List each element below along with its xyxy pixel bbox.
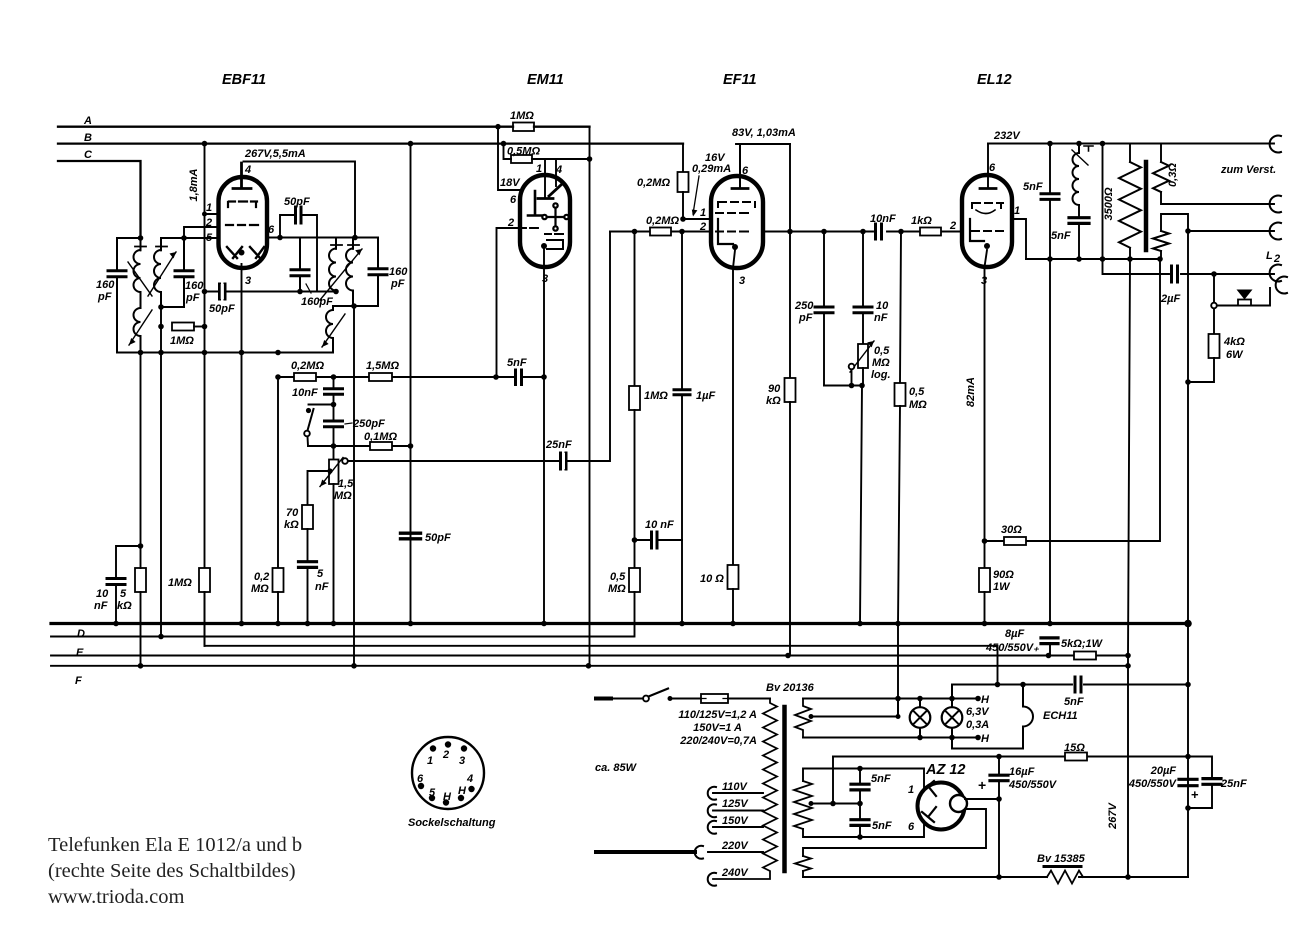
resistor 90Ω 1W — [979, 568, 1014, 626]
wire EM11 pin3 cathode to bus D — [541, 246, 548, 626]
svg-text:0,2MΩ: 0,2MΩ — [637, 177, 670, 189]
wire EF11 plate row to EL12 grid — [763, 229, 962, 235]
svg-text:pF: pF — [798, 312, 813, 324]
wire AVC line B to bus D — [408, 141, 414, 627]
transformer primary taps — [596, 781, 763, 886]
svg-text:6: 6 — [742, 165, 749, 177]
wire AZ12 cathode output — [965, 796, 1002, 802]
svg-text:6: 6 — [417, 773, 424, 785]
svg-text:5nF: 5nF — [1051, 230, 1071, 242]
svg-text:1µF: 1µF — [696, 390, 715, 402]
svg-text:kΩ: kΩ — [117, 600, 132, 612]
svg-text:82mA: 82mA — [965, 377, 977, 407]
wire oscillator line down to second ground line — [158, 307, 164, 639]
heater ECH11 — [952, 682, 1078, 749]
svg-text:A: A — [83, 115, 92, 127]
svg-text:10 nF: 10 nF — [645, 519, 674, 531]
svg-text:160: 160 — [96, 279, 115, 291]
wire EBF11 pin5 / box2 top — [161, 235, 219, 241]
capacitor 10nF (horizontal, AVC filter) — [632, 519, 682, 548]
wire EBF11 pin6 / IF transformer top — [267, 235, 378, 241]
svg-text:H: H — [443, 791, 452, 803]
wire bus A corner down to bus F — [586, 127, 593, 669]
resistor 0,5MΩ (to second ground line) — [608, 568, 640, 637]
svg-text:zum Verst.: zum Verst. — [1220, 164, 1276, 176]
svg-text:0,5: 0,5 — [874, 345, 890, 357]
capacitor 5nF (HV lower) — [851, 804, 892, 838]
svg-text:pF: pF — [390, 278, 405, 290]
wire EBF11 pin1 / AVC line down to bus E — [202, 141, 219, 646]
capacitor 25nF — [1188, 757, 1247, 809]
svg-text:10: 10 — [96, 588, 109, 600]
svg-text:4: 4 — [555, 164, 562, 176]
svg-text:Telefunken Ela E 1012/a und b: Telefunken Ela E 1012/a und b — [48, 834, 302, 856]
svg-text:6: 6 — [908, 821, 915, 833]
terminal arcs zum Verst. — [1220, 135, 1281, 239]
tube EL12 internals — [970, 203, 1003, 249]
svg-text:kΩ: kΩ — [284, 519, 299, 531]
capacitor 160pF (antenna primary) — [96, 238, 126, 353]
svg-text:6: 6 — [268, 224, 275, 236]
resistor 0,2MΩ (horizontal) — [291, 360, 324, 381]
capacitor 160pF (box2) — [175, 238, 204, 307]
wire bus B — [58, 132, 683, 144]
tube AZ12 — [908, 762, 966, 833]
resistor 1MΩ (in bus A, EM11 grid) — [510, 110, 534, 131]
potentiometer 1,5MΩ — [320, 446, 354, 502]
svg-text:10: 10 — [876, 300, 889, 312]
wire heater center tap — [809, 699, 901, 720]
svg-text:1,5: 1,5 — [338, 478, 354, 490]
tube EM11 internals (eye target) — [528, 191, 569, 231]
resistor 0,5MΩ (EL12 grid leak) — [895, 232, 928, 717]
svg-text:C: C — [84, 149, 93, 161]
fuse — [701, 694, 770, 703]
svg-text:50pF: 50pF — [284, 196, 310, 208]
svg-text:5: 5 — [429, 787, 436, 799]
svg-text:2: 2 — [699, 221, 706, 233]
svg-text:2: 2 — [949, 220, 956, 232]
wire long line IF bottom to bus F — [351, 306, 357, 669]
svg-text:160: 160 — [185, 280, 204, 292]
transformer heater winding 6,3V — [795, 694, 990, 745]
wire EBF11 pin2 to osc coil box — [184, 227, 219, 238]
svg-text:5: 5 — [317, 568, 324, 580]
svg-text:1: 1 — [1014, 205, 1020, 217]
svg-text:450/550V: 450/550V — [1008, 779, 1058, 791]
wire AVC row 0.2M/1.5M — [275, 374, 547, 380]
svg-text:6,3V: 6,3V — [966, 706, 990, 718]
wire EL12 pin1 grid tap to 259 row — [1012, 205, 1026, 259]
svg-text:1MΩ: 1MΩ — [644, 390, 668, 402]
capacitor 5nF (heater) — [1023, 677, 1188, 708]
wire EM11 pin2 grid to coupling — [497, 217, 539, 377]
svg-text:3: 3 — [981, 275, 987, 287]
wire tone network bottom — [824, 383, 865, 389]
svg-text:110V: 110V — [722, 781, 749, 793]
capacitor 20µF 450/550V — [1128, 765, 1199, 802]
switch (tone) — [304, 405, 333, 447]
svg-text:3: 3 — [542, 273, 548, 285]
svg-text:5nF: 5nF — [871, 773, 891, 785]
svg-text:3: 3 — [739, 275, 745, 287]
resistor 1kΩ (EL12 grid stopper) — [911, 215, 956, 236]
capacitor 25nF — [545, 439, 572, 469]
wire EF11 plate line down (90kΩ) — [787, 144, 793, 378]
lamp dial 1 — [910, 699, 931, 738]
resistor 30Ω (feedback) — [985, 259, 1161, 545]
wire screen row y=259 — [1026, 256, 1163, 262]
resistor 0,2MΩ (EF11 grid from B) — [637, 144, 711, 222]
resistor 0,5MΩ (EM11 grid) — [501, 141, 590, 163]
resistor 10Ω — [700, 565, 739, 626]
resistor 5kΩ — [117, 568, 146, 669]
svg-text:15Ω: 15Ω — [1064, 742, 1085, 754]
svg-text:5nF: 5nF — [872, 820, 892, 832]
inductor antenna coil L1a with core adjuster — [128, 238, 152, 308]
svg-text:232V: 232V — [993, 130, 1021, 142]
terminal L2 (speaker jack) — [1266, 250, 1287, 294]
tube EF11 internals — [716, 202, 755, 250]
wire box2 bottom — [158, 304, 184, 310]
resistor 5kΩ;1W — [1061, 638, 1104, 660]
wire antenna box1 top — [117, 237, 141, 239]
resistor 15Ω (heater dropping) — [833, 742, 1188, 761]
svg-text:ca. 85W: ca. 85W — [595, 762, 638, 774]
svg-text:H: H — [981, 733, 990, 745]
wire pot left to 70kΩ — [308, 468, 333, 505]
svg-text:Sockelschaltung: Sockelschaltung — [408, 817, 496, 829]
output transformer core — [1144, 162, 1149, 250]
capacitor 160pF (IF right) — [369, 238, 408, 307]
svg-text:3: 3 — [459, 755, 465, 767]
svg-text:90Ω: 90Ω — [993, 569, 1014, 581]
svg-text:Bv 15385: Bv 15385 — [1037, 853, 1086, 865]
svg-text:+: + — [1191, 787, 1199, 802]
svg-text:220V: 220V — [721, 840, 749, 852]
wire EL12 pin6 plate — [980, 144, 996, 189]
svg-text:0,5: 0,5 — [909, 386, 925, 398]
svg-text:90: 90 — [768, 383, 781, 395]
svg-text:+: + — [978, 777, 986, 793]
svg-text:0,3Ω: 0,3Ω — [1167, 163, 1179, 187]
svg-text:D: D — [77, 628, 85, 640]
svg-text:0,3A: 0,3A — [966, 719, 989, 731]
svg-text:10nF: 10nF — [292, 387, 318, 399]
svg-text:110/125V=1,2 A: 110/125V=1,2 A — [678, 709, 757, 721]
svg-text:log.: log. — [871, 369, 891, 381]
wire 50pF row (EBF11 diode to IF secondary) — [202, 289, 339, 295]
speaker (crystal) symbol — [1211, 274, 1270, 308]
wire EBF11 plate 267V to IF transformer — [244, 162, 356, 238]
resistor 0,2MΩ (vertical to D) — [251, 377, 284, 626]
wire EF11 pin3 cathode — [733, 250, 745, 565]
svg-text:0,29mA: 0,29mA — [692, 163, 731, 175]
svg-text:25nF: 25nF — [545, 439, 572, 451]
svg-text:pF: pF — [185, 292, 200, 304]
svg-text:(rechte Seite des Schaltbildes: (rechte Seite des Schaltbildes) — [48, 860, 296, 882]
inductor secondary 0,3Ω (to amplifier) — [1153, 144, 1274, 205]
svg-text:1: 1 — [427, 755, 433, 767]
wire bus (fourth line) — [51, 655, 1128, 657]
svg-text:0,2MΩ: 0,2MΩ — [646, 215, 679, 227]
wire bus D — [51, 624, 1188, 641]
wire EM11 pin4 plate drop — [549, 159, 562, 196]
svg-text:4: 4 — [244, 164, 251, 176]
svg-text:150V=1 A: 150V=1 A — [693, 722, 742, 734]
svg-text:250pF: 250pF — [352, 418, 385, 430]
svg-text:0,5: 0,5 — [610, 571, 626, 583]
wire coil line down to 5kΩ and bus F — [140, 353, 142, 569]
svg-text:3500Ω: 3500Ω — [1103, 187, 1115, 220]
svg-text:B: B — [84, 132, 92, 144]
svg-text:220/240V=0,7A: 220/240V=0,7A — [679, 735, 757, 747]
svg-text:150V: 150V — [722, 815, 749, 827]
svg-text:2: 2 — [1273, 253, 1280, 265]
resistor 4kΩ 6W — [1188, 309, 1245, 383]
svg-text:450/550V: 450/550V — [1128, 778, 1178, 790]
inductor secondary (speaker winding) — [1153, 214, 1274, 259]
svg-text:nF: nF — [94, 600, 108, 612]
resistor 0,1MΩ — [364, 431, 397, 450]
svg-text:10 Ω: 10 Ω — [700, 573, 724, 585]
svg-text:3: 3 — [245, 275, 251, 287]
svg-text:240V: 240V — [721, 867, 749, 879]
wire bus A — [58, 115, 590, 127]
svg-text:1: 1 — [700, 207, 706, 219]
capacitor 250pF (tone) — [794, 232, 833, 386]
svg-text:ECH11: ECH11 — [1043, 710, 1078, 722]
capacitor 16µF 450/550V — [978, 757, 1058, 880]
svg-text:MΩ: MΩ — [251, 583, 269, 595]
resistor 1MΩ (EF11 grid leak) — [629, 232, 668, 569]
svg-text:kΩ: kΩ — [766, 395, 781, 407]
capacitor 5nF (HV upper) — [851, 769, 891, 804]
svg-text:nF: nF — [315, 581, 329, 593]
svg-text:1: 1 — [536, 163, 542, 175]
svg-text:Bv 20136: Bv 20136 — [766, 682, 815, 694]
resistor 1,5MΩ (horizontal) — [366, 360, 399, 381]
svg-text:2: 2 — [442, 749, 449, 761]
svg-text:www.trioda.com: www.trioda.com — [48, 886, 184, 908]
wire bottom rail of coil boxes — [117, 350, 333, 356]
wire bus E — [76, 646, 998, 685]
capacitor 10nF (vertical, switch row) — [292, 377, 343, 407]
wire bottom return rail — [803, 876, 1188, 878]
capacitor 1µF — [674, 229, 715, 627]
svg-text:1kΩ: 1kΩ — [911, 215, 932, 227]
label 16V 0,29mA with arrow — [692, 152, 731, 217]
svg-text:L: L — [1266, 250, 1273, 262]
svg-text:5nF: 5nF — [1023, 181, 1043, 193]
svg-text:E: E — [76, 647, 84, 659]
svg-text:450/550V₊: 450/550V₊ — [985, 642, 1039, 654]
svg-text:2µF: 2µF — [1160, 293, 1180, 305]
svg-text:5nF: 5nF — [1064, 696, 1084, 708]
svg-text:160: 160 — [389, 266, 408, 278]
capacitor 50pF (horizontal) — [209, 284, 235, 315]
svg-text:MΩ: MΩ — [909, 399, 927, 411]
title text — [48, 834, 302, 908]
svg-text:1: 1 — [908, 784, 914, 796]
svg-text:0,2MΩ: 0,2MΩ — [291, 360, 324, 372]
wire EF11 pin2 grid row — [610, 221, 711, 234]
resistor 1MΩ (osc grid leak, horizontal) — [170, 323, 207, 348]
resistor 90kΩ — [766, 378, 796, 658]
svg-text:nF: nF — [874, 312, 888, 324]
wire IF transformer bottom — [333, 303, 378, 309]
inductor RF choke + capacitor 5nF — [1051, 144, 1093, 260]
svg-text:EF11: EF11 — [723, 72, 757, 88]
tube EBF11 — [219, 72, 268, 268]
switch mains — [596, 689, 701, 702]
svg-text:70: 70 — [286, 507, 299, 519]
wire tone bottom to bus D — [857, 386, 863, 627]
capacitor 10nF (to bus D) — [94, 543, 143, 626]
socket diagram (Sockelschaltung) — [408, 737, 496, 829]
wire EF11 plate top link — [732, 144, 790, 189]
label mains ratings — [678, 709, 757, 747]
inductor antenna coil L1b (secondary, arrow) — [129, 308, 152, 353]
svg-text:MΩ: MΩ — [334, 490, 352, 502]
wire bus C — [58, 149, 141, 238]
wire EM11 screen feed from bus A — [495, 124, 521, 206]
svg-text:30Ω: 30Ω — [1001, 524, 1022, 536]
transformer 4V winding — [795, 856, 811, 877]
tube EF11 — [711, 72, 763, 268]
svg-text:16µF: 16µF — [1009, 766, 1035, 778]
wire rail 267V (x=1128) — [1125, 259, 1131, 880]
resistor 70kΩ — [284, 505, 313, 561]
wire pot tap to 25nF row — [348, 232, 610, 462]
capacitor 50pF (top, IF feedback) — [280, 196, 317, 292]
resistor 0,2MΩ (horizontal, EF11 grid) — [646, 215, 679, 236]
svg-text:6W: 6W — [1226, 349, 1244, 361]
svg-text:25nF: 25nF — [1220, 778, 1247, 790]
wire EBF11 pin3 cathode to bottom wire — [239, 264, 245, 626]
svg-text:0,1MΩ: 0,1MΩ — [364, 431, 397, 443]
svg-text:F: F — [75, 675, 82, 687]
svg-text:EBF11: EBF11 — [222, 72, 266, 88]
svg-text:50pF: 50pF — [209, 303, 235, 315]
wire right rail (output common) — [1184, 231, 1192, 877]
tube EL12 — [962, 72, 1012, 267]
svg-text:125V: 125V — [722, 798, 749, 810]
svg-text:H: H — [981, 694, 990, 706]
capacitor 5nF (cathode) — [299, 562, 329, 627]
wire pot line to bus D — [331, 484, 337, 626]
tube EBF11 internals — [226, 163, 264, 258]
capacitor 5nF (plate) and 8µF electrolytic line — [985, 144, 1059, 659]
wire HV center tap to 15Ω row — [809, 757, 863, 807]
svg-text:4kΩ: 4kΩ — [1223, 336, 1245, 348]
svg-text:1: 1 — [206, 202, 212, 214]
svg-text:267V,5,5mA: 267V,5,5mA — [244, 148, 306, 160]
svg-text:pF: pF — [97, 291, 112, 303]
resistor Bv15385 (field coil) — [1037, 853, 1086, 884]
svg-text:160pF: 160pF — [301, 296, 333, 308]
svg-text:1,5MΩ: 1,5MΩ — [366, 360, 399, 372]
tube EM11 triode plate bracket — [541, 234, 563, 249]
svg-text:250: 250 — [794, 300, 814, 312]
transformer HV winding — [794, 766, 924, 840]
svg-text:MΩ: MΩ — [872, 357, 890, 369]
svg-text:0,2: 0,2 — [254, 571, 269, 583]
wire EL12 pin3 cathode down — [981, 250, 987, 568]
capacitor 5nF (EM11 coupling) — [507, 357, 527, 385]
tube EM11 — [520, 72, 570, 267]
node C junction on antenna box — [138, 235, 144, 241]
svg-text:5: 5 — [120, 588, 127, 600]
svg-text:8µF: 8µF — [1005, 628, 1024, 640]
capacitor 2µF (speaker coupling) — [1103, 144, 1275, 306]
inductor IF coil A with adjuster — [329, 238, 342, 292]
svg-text:MΩ: MΩ — [608, 583, 626, 595]
wire AZ12 filament to 4V winding — [803, 809, 986, 856]
inductor oscillator secondary (2 loops, arrow) — [322, 306, 345, 353]
svg-text:20µF: 20µF — [1150, 765, 1177, 777]
wire EM11 pin1 grid drop — [536, 159, 553, 199]
svg-text:5nF: 5nF — [507, 357, 527, 369]
potentiometer 0,5MΩ log. — [849, 341, 891, 386]
svg-text:50pF: 50pF — [425, 532, 451, 544]
capacitor 160pF (IF primary left) — [291, 238, 333, 309]
tube AZ12 anodes — [922, 781, 936, 822]
svg-text:6: 6 — [510, 194, 517, 206]
svg-text:1MΩ: 1MΩ — [510, 110, 534, 122]
wire 0,1MΩ row — [308, 443, 413, 449]
tube AZ12 filament bump — [950, 795, 967, 812]
wire 232V plate rail — [988, 141, 1274, 147]
svg-text:1MΩ: 1MΩ — [168, 577, 192, 589]
svg-text:4: 4 — [466, 773, 473, 785]
svg-text:5kΩ;1W: 5kΩ;1W — [1061, 638, 1104, 650]
capacitor 10nF (coupling) — [870, 213, 896, 239]
svg-text:EL12: EL12 — [977, 72, 1012, 88]
transformer Bv20136 primary winding — [713, 699, 777, 880]
svg-text:0,5MΩ: 0,5MΩ — [507, 146, 540, 158]
svg-text:83V, 1,03mA: 83V, 1,03mA — [732, 127, 796, 139]
svg-text:EM11: EM11 — [527, 72, 564, 88]
transformer core — [782, 707, 787, 871]
svg-text:H: H — [458, 785, 467, 797]
wire bus F — [51, 666, 1128, 687]
capacitor 50pF (on AVC line, middle) — [401, 532, 451, 544]
svg-text:267V: 267V — [1107, 801, 1119, 829]
resistor 3500Ω (output transformer primary shunt) — [1103, 144, 1141, 260]
svg-text:6: 6 — [989, 162, 996, 174]
resistor 1MΩ (AVC, to bus E) — [168, 568, 210, 646]
svg-text:AZ 12: AZ 12 — [925, 762, 966, 778]
capacitor 10nF (tone, to pot) — [854, 232, 889, 345]
svg-text:1MΩ: 1MΩ — [170, 335, 194, 347]
svg-text:18V: 18V — [500, 177, 521, 189]
lamp dial 2 — [942, 685, 963, 749]
inductor IF coil B (primary) with adjuster — [320, 238, 362, 307]
wire bus (second ground line) — [51, 636, 634, 638]
capacitor 250pF — [325, 405, 386, 447]
svg-text:1,8mA: 1,8mA — [188, 168, 200, 201]
svg-text:10nF: 10nF — [870, 213, 896, 225]
inductor oscillator coil (box2) with arrow — [148, 238, 176, 307]
svg-text:2: 2 — [507, 217, 514, 229]
svg-text:1W: 1W — [993, 581, 1011, 593]
